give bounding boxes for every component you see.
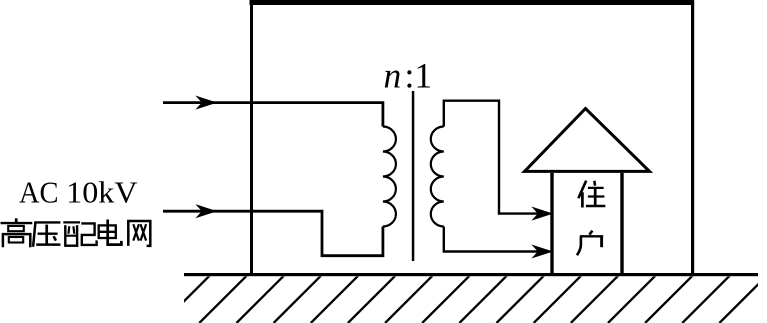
arrowhead on upper input wire <box>197 97 216 109</box>
arrowhead on house lower feed <box>533 246 552 258</box>
arrowhead on house upper feed <box>533 208 552 220</box>
ground line <box>184 273 758 276</box>
char 网 <box>128 221 150 246</box>
ground hatching <box>162 275 767 323</box>
house left wall <box>550 173 553 275</box>
transformer core <box>412 91 415 261</box>
building enclosure left wall <box>250 0 253 275</box>
house roof <box>525 109 650 172</box>
svg-text::1: :1 <box>405 56 433 96</box>
building enclosure right wall <box>691 0 694 275</box>
svg-text:n: n <box>384 56 402 96</box>
label 住 (drawn strokes) <box>578 181 605 208</box>
transformer secondary winding L2 <box>431 127 444 227</box>
building enclosure top wall <box>250 0 695 5</box>
wire: secondary bottom to house lower feed <box>444 227 550 252</box>
wire: secondary top to house upper feed <box>444 101 550 214</box>
transformer primary winding L1 <box>383 127 396 227</box>
svg-text:10kV: 10kV <box>66 175 138 210</box>
arrowhead on lower input wire <box>197 205 216 217</box>
label 户 (drawn strokes) <box>577 231 603 256</box>
svg-text:AC: AC <box>19 175 59 210</box>
wire: lower input line with step to primary bottom <box>163 211 383 256</box>
char 高 <box>1 218 33 247</box>
char 配 <box>63 222 96 246</box>
label 高压配电网 (drawn strokes) <box>1 218 151 247</box>
wire: upper input line to primary top <box>163 103 383 127</box>
house right wall <box>620 173 623 275</box>
char 电 <box>99 220 122 245</box>
char 压 <box>33 222 60 246</box>
